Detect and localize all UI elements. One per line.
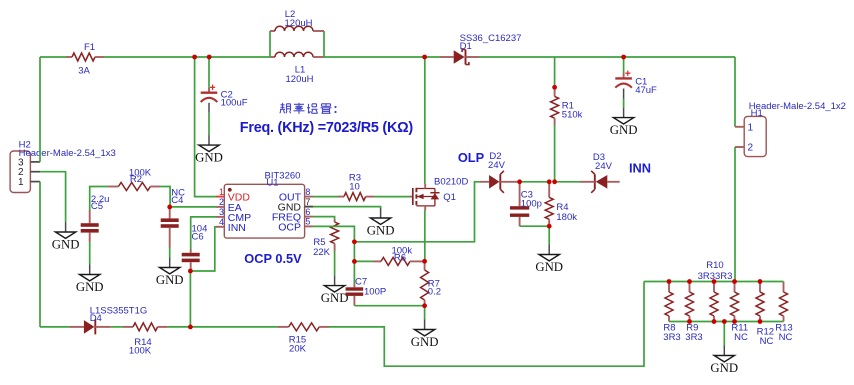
transistor Q1 B0210D (410, 184, 440, 211)
resistor R5 (331, 219, 339, 251)
label freq formula (240, 120, 414, 136)
header H2 (10, 151, 30, 193)
ground R4 (535, 245, 563, 275)
wire C5 to ground (89, 242, 91, 265)
node junction bank bottom (758, 319, 763, 324)
svg-text:8: 8 (305, 187, 310, 197)
svg-text:R2: R2 (130, 174, 142, 185)
svg-text:OCP 0.5V: OCP 0.5V (244, 251, 302, 266)
wire C2 to ground (208, 113, 210, 135)
label R5 value 22K (313, 247, 331, 258)
wire C6 node to R15 (190, 326, 278, 328)
label R7 value 0.2 (428, 287, 441, 298)
wire R3 to Q1 gate (374, 196, 410, 198)
label R2 value 100K (129, 167, 152, 178)
label R5 (313, 237, 325, 248)
wire R14 to C6 node (168, 326, 191, 328)
svg-text:100p: 100p (521, 199, 542, 210)
label R13 (775, 323, 792, 334)
label SS36_C16237 (460, 33, 522, 44)
wire L2 left stub (269, 31, 271, 57)
wire C1 top (623, 57, 625, 73)
label H1 (751, 108, 763, 119)
wire H2 pin1 down left rail (39, 182, 41, 327)
capacitor C3 (510, 182, 529, 226)
resistor R13 (780, 282, 788, 322)
label R7 (428, 279, 440, 290)
label R3 value 10 (349, 181, 360, 192)
label C2 (221, 89, 233, 100)
svg-text:7: 7 (305, 197, 310, 207)
node junction R7 top (422, 259, 427, 264)
wire C1 to ground (623, 99, 625, 108)
wire D1 to corner (480, 56, 736, 58)
label R3 (349, 172, 361, 183)
wire C2 top (208, 57, 210, 88)
svg-text:4: 4 (219, 217, 224, 227)
wire F1 to C2 node (104, 56, 270, 58)
wire bottom rail left (40, 326, 70, 328)
label D1 (460, 41, 472, 52)
label R6 (394, 253, 406, 264)
pin 7 U1 GND (278, 197, 313, 214)
ground C4 (156, 258, 184, 288)
ground R5 (321, 276, 349, 306)
label R2 (130, 174, 142, 185)
pin 2 U1 EA (216, 197, 242, 214)
wire right edge down to H1 (734, 57, 736, 127)
wire D2 to R4 node (520, 181, 550, 183)
label INN (629, 161, 651, 176)
wire C6 node down (189, 271, 191, 327)
node junction C6 bottom (188, 269, 193, 274)
resistor R3 (338, 193, 374, 201)
label H2 (19, 139, 31, 150)
diode D4 (70, 319, 111, 334)
pin 3 U1 CMP (216, 207, 251, 224)
svg-text:GND: GND (710, 361, 738, 375)
capacitor C1 (615, 71, 632, 99)
node junction R4 bottom (547, 224, 552, 229)
label C1 value 47uF (635, 85, 657, 96)
label 3A (78, 66, 90, 77)
svg-text:0.2: 0.2 (428, 287, 441, 298)
label R8 value 3R3 (663, 332, 680, 343)
svg-text:6: 6 (305, 207, 310, 217)
svg-text:GND: GND (195, 151, 223, 165)
label R1 (562, 101, 574, 112)
wire VDD net (195, 57, 216, 197)
resistor R6 (373, 257, 425, 265)
svg-text:F1: F1 (84, 42, 95, 53)
label R10 (706, 260, 723, 271)
ground C2 (195, 135, 223, 165)
label C6 value 104 (192, 224, 208, 235)
label R14 (134, 337, 151, 348)
svg-text:2: 2 (748, 143, 754, 154)
svg-text:OLP: OLP (458, 150, 485, 165)
svg-text:Freq. (KHz) =7023/R5 (KΩ): Freq. (KHz) =7023/R5 (KΩ) (240, 120, 414, 136)
svg-text:GND: GND (52, 238, 80, 252)
node junction bank top (758, 279, 763, 284)
label R15 (289, 335, 306, 346)
wire CMP to C6 (191, 217, 216, 249)
svg-text:3R3: 3R3 (663, 332, 680, 343)
node junction Q1 top (422, 55, 427, 60)
label NC (171, 188, 185, 199)
svg-text:47uF: 47uF (635, 85, 657, 96)
pin 1 U1 VDD (216, 187, 250, 204)
label B0210D (434, 177, 468, 188)
label C2 value 100uF (221, 97, 248, 108)
label Header-Male-2.54_1x2 (749, 101, 846, 112)
wire R2 to C4 (160, 187, 170, 207)
svg-text:GND: GND (156, 273, 184, 287)
label C3 value 100p (521, 199, 542, 210)
svg-text:180k: 180k (556, 212, 577, 223)
label L2 (285, 9, 296, 20)
wire bank bottom bus (669, 321, 784, 323)
ground R7 (411, 320, 439, 350)
svg-text:GND: GND (535, 260, 563, 274)
label R8 (663, 323, 675, 334)
ground C5 (76, 265, 104, 295)
resistor R2 (108, 183, 160, 191)
capacitor C6 (182, 249, 200, 271)
ground U1 pin7 (367, 208, 395, 238)
pin 2 H2 (18, 167, 40, 178)
svg-text:2: 2 (219, 197, 224, 207)
node junction bank bottom (687, 319, 692, 324)
wire C7 bottom to R7 bottom (354, 305, 424, 307)
label L1 value 120uH (286, 74, 314, 85)
svg-text:1: 1 (748, 122, 754, 133)
label C7 (355, 277, 367, 288)
label BIT3260 (265, 170, 301, 181)
svg-text:24V: 24V (595, 161, 613, 172)
wire FREQ to R5 (313, 217, 335, 219)
svg-text:10: 10 (349, 181, 360, 192)
wire GND pin to ground (313, 207, 381, 208)
svg-text:GND: GND (411, 335, 439, 349)
svg-text:Q1: Q1 (443, 192, 456, 203)
label L1SS355T1G (90, 306, 148, 317)
node junction C2 (207, 55, 212, 60)
svg-text:OCP: OCP (278, 221, 301, 233)
wire top rail left (40, 56, 66, 58)
pin 5 U1 OCP (278, 217, 313, 234)
wire bank top bus (644, 281, 784, 283)
node junction R1 top (552, 85, 557, 90)
svg-text:R10: R10 (706, 260, 723, 271)
label C5 value 2.2u (91, 194, 110, 205)
pin 2 H1 (735, 143, 754, 154)
resistor R1 (551, 87, 559, 125)
label L2 value 120uH (285, 18, 313, 29)
label R4 value 180k (556, 212, 577, 223)
label R11 value NC (734, 332, 748, 343)
pin 4 U1 INN (216, 217, 246, 234)
svg-text:INN: INN (228, 222, 246, 234)
label OCP 0.5V (244, 251, 302, 266)
svg-text:Header-Male-2.54_1x2: Header-Male-2.54_1x2 (749, 101, 846, 112)
node junction bottom rail (188, 325, 193, 330)
label F1 (84, 42, 95, 53)
resistor R11 (731, 282, 739, 322)
label D3 (593, 152, 605, 163)
wire R4 node to D3 (555, 181, 580, 183)
svg-text:3A: 3A (78, 66, 90, 77)
wire C4 node to EA (170, 206, 216, 208)
fuse F1 (66, 53, 104, 61)
capacitor C4 (161, 207, 179, 248)
label D4 (90, 313, 102, 324)
label R1 value 510k (562, 110, 583, 121)
wire C4 to ground (169, 248, 171, 258)
svg-text:NC: NC (734, 332, 748, 343)
wire OCP down (313, 226, 354, 283)
label R14 value 100K (129, 345, 152, 356)
resistor R14 (123, 323, 168, 331)
label C7 value 100P (364, 287, 386, 298)
svg-text:C5: C5 (91, 201, 103, 212)
svg-text:120uH: 120uH (285, 18, 313, 29)
svg-text:C6: C6 (192, 232, 204, 243)
svg-text:D4: D4 (90, 313, 102, 324)
label freq note chinese (280, 103, 337, 114)
label D3 value 24V (595, 161, 613, 172)
svg-text:C4: C4 (171, 195, 183, 206)
diode D3 zener 24V (580, 171, 620, 193)
svg-text:100P: 100P (364, 287, 386, 298)
ground C1 (610, 108, 638, 138)
label R15 value 20K (289, 344, 307, 355)
wire L1 to D1 (324, 56, 440, 58)
header H1 (744, 116, 766, 156)
op-amp U1 BIT3260 (224, 184, 304, 238)
label R11 (731, 323, 748, 334)
label R6 value 100k (391, 246, 412, 257)
label R13 value NC (779, 332, 793, 343)
wire OCP node to R6 (354, 260, 373, 262)
pin 3 H2 (18, 157, 40, 168)
label R4 (556, 202, 568, 213)
wire H1 pin2 down (734, 147, 736, 282)
node junction bank top (712, 279, 717, 284)
node junction C3 top (517, 179, 522, 184)
wire H2 pin2 to ground (40, 172, 66, 222)
wire bank to ground (723, 322, 725, 346)
capacitor C7 (346, 284, 364, 306)
resistor R9 (686, 282, 694, 322)
label Header-Male-2.54_1x3 (19, 148, 116, 159)
capacitor C5 (81, 210, 99, 242)
svg-text:NC: NC (760, 336, 774, 347)
svg-text:100uF: 100uF (221, 97, 248, 108)
node junction bank top (687, 279, 692, 284)
node junction C1 (621, 55, 626, 60)
resistor R8 (665, 282, 673, 322)
pin 1 H2 (18, 177, 40, 188)
inductor L2 (270, 26, 324, 31)
diode D1 schottky (440, 50, 480, 65)
svg-text:510k: 510k (562, 110, 583, 121)
resistor R4 (545, 182, 553, 226)
label L1 (295, 65, 306, 76)
node junction R7 bottom (422, 303, 427, 308)
wire Q1 source down (424, 211, 426, 262)
wire R1 to D2 net (554, 125, 556, 182)
svg-text:NC: NC (779, 332, 793, 343)
resistor R10 (710, 282, 718, 322)
label OLP (458, 150, 485, 165)
svg-text:GND: GND (610, 123, 638, 137)
label R9 value 3R3 (685, 332, 702, 343)
svg-text:1: 1 (219, 187, 224, 197)
wire OCP to D2 anode (354, 182, 480, 242)
svg-text:INN: INN (629, 161, 651, 176)
svg-text:U1: U1 (266, 178, 278, 189)
inductor L1 (270, 52, 324, 57)
svg-text:3: 3 (219, 207, 224, 217)
pin 1 H1 (735, 122, 754, 133)
node junction bank bottom (722, 319, 727, 324)
ground H2 pin2 (52, 222, 80, 252)
label D2 value 24V (488, 160, 506, 171)
svg-text:120uH: 120uH (286, 74, 314, 85)
label C5 (91, 201, 103, 212)
label Q1 (443, 192, 456, 203)
resistor R7 (421, 261, 429, 306)
wire H2 pin3 up left rail (39, 57, 41, 162)
resistor R12 (756, 282, 764, 322)
label R9 (686, 323, 698, 334)
svg-text:D1: D1 (460, 41, 472, 52)
resistor R15 (278, 323, 329, 331)
wire L2 right stub (323, 31, 325, 57)
label R12 (757, 326, 774, 337)
svg-text:Header-Male-2.54_1x3: Header-Male-2.54_1x3 (19, 148, 116, 159)
svg-text:B0210D: B0210D (434, 177, 468, 188)
label R12 value NC (760, 336, 774, 347)
svg-text:GND: GND (321, 291, 349, 305)
diode D2 zener 24V (480, 171, 520, 193)
label C3 (521, 190, 533, 201)
node junction bank bottom (732, 319, 737, 324)
node junction bank top (732, 279, 737, 284)
wire D4 to R14 (111, 326, 123, 328)
svg-text:3R3: 3R3 (685, 332, 702, 343)
node junction VDD line (192, 55, 197, 60)
label U1 (266, 178, 278, 189)
wire R5 to ground wire (334, 251, 336, 276)
label C4 (171, 195, 183, 206)
wire OUT to R3 (313, 196, 338, 198)
node junction R4 top (547, 179, 552, 184)
svg-text:H1: H1 (751, 108, 763, 119)
node junction bank top (667, 279, 672, 284)
node junction bank bottom (712, 319, 717, 324)
svg-text:22K: 22K (313, 247, 331, 258)
label R10 value 3R3 pair (698, 271, 733, 282)
wire R1 top (554, 57, 556, 87)
svg-text:1: 1 (18, 177, 24, 188)
node junction OCP-D2 (352, 239, 357, 244)
label C1 (635, 77, 647, 88)
wire C5 top (90, 187, 108, 211)
node junction OCP-R6 (352, 259, 357, 264)
pin 8 U1 OUT (279, 187, 313, 204)
svg-text:R6: R6 (394, 253, 406, 264)
ground bank (710, 346, 738, 376)
svg-text:GND: GND (76, 280, 104, 294)
svg-text:5: 5 (305, 217, 310, 227)
node junction C4 (167, 205, 172, 210)
wire R15 to bank (329, 282, 644, 367)
svg-text:24V: 24V (488, 160, 506, 171)
wire INN to C6 bottom (191, 227, 216, 271)
label C6 (192, 232, 204, 243)
wire R4 to ground (548, 226, 550, 244)
wire C3 bottom (520, 225, 550, 227)
capacitor C2 (201, 85, 218, 113)
wire Q1 drain up (424, 57, 426, 184)
pin 6 U1 FREQ (272, 207, 313, 224)
wire R7 to ground (424, 306, 426, 320)
node junction R1 bottom (552, 179, 557, 184)
svg-text:20K: 20K (289, 344, 307, 355)
svg-text:GND: GND (367, 224, 395, 238)
svg-text:100K: 100K (129, 345, 152, 356)
label D2 (489, 151, 501, 162)
